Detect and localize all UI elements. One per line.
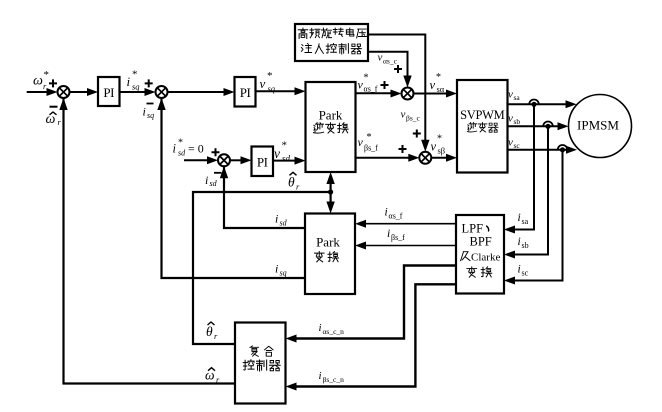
label i_alpha_s_f bbox=[385, 207, 403, 221]
label v_alpha_s_f* bbox=[358, 73, 378, 94]
wire i_alpha_s_f LPF to Park transform bbox=[361, 223, 457, 225]
wire omega_r hat composite controller to S1 bbox=[64, 98, 236, 384]
svg-text:sq: sq bbox=[147, 111, 154, 120]
svg-text:αs_f: αs_f bbox=[389, 212, 403, 221]
svg-text:v: v bbox=[508, 113, 513, 125]
wire S4 to SVPWM bbox=[414, 93, 452, 95]
svg-text:*: * bbox=[436, 72, 441, 83]
svg-text:sd: sd bbox=[210, 179, 218, 188]
label plus sign at S3 bbox=[212, 148, 220, 156]
svg-text:i: i bbox=[275, 212, 278, 226]
wire theta_r hat composite controller to Park blocks bbox=[193, 192, 331, 344]
svg-text:αs_c_n: αs_c_n bbox=[323, 327, 345, 336]
wire S1 to PI1 bbox=[70, 91, 93, 93]
wire i_sq Park transform to S2 bbox=[162, 98, 306, 278]
PI controller PI2 bbox=[235, 77, 256, 107]
label v_sc bbox=[508, 137, 520, 151]
svg-text:sq: sq bbox=[132, 82, 140, 92]
label plus above S4 bbox=[394, 65, 402, 73]
label v_sa bbox=[508, 89, 520, 103]
summing junction S5 bbox=[419, 152, 431, 164]
svg-text:βs_f: βs_f bbox=[391, 233, 405, 242]
wire current i_sa to LPF block bbox=[510, 104, 535, 229]
wire HF controller beta output to S5 bbox=[368, 35, 425, 147]
wire i_sd* input bbox=[184, 159, 213, 161]
wire current i_sb to LPF block bbox=[510, 126, 549, 254]
PI controller PI3 bbox=[252, 147, 274, 177]
svg-text:Park: Park bbox=[316, 235, 340, 250]
svg-text:i: i bbox=[127, 74, 131, 89]
svg-text:ω: ω bbox=[33, 74, 43, 89]
label v_s_beta* bbox=[431, 134, 446, 156]
svg-text:i: i bbox=[319, 370, 322, 382]
block SVPWM inverter bbox=[457, 80, 508, 173]
current sensor phase b bbox=[543, 122, 553, 129]
svg-text:v: v bbox=[260, 76, 266, 91]
svg-text:sd: sd bbox=[282, 154, 291, 164]
label omega_r hat feedback bbox=[46, 112, 62, 127]
svg-text:SVPWM: SVPWM bbox=[460, 108, 505, 122]
svg-text:sβ: sβ bbox=[438, 146, 446, 156]
svg-text:sa: sa bbox=[514, 93, 521, 102]
wire speed reference input bbox=[27, 91, 52, 93]
label i_sq output bbox=[275, 262, 287, 278]
svg-text:*: * bbox=[44, 69, 50, 81]
block LPF BPF and Clarke transform bbox=[456, 215, 504, 294]
label theta_r hat near PI3 bbox=[288, 172, 300, 191]
label i_sd* = 0 bbox=[173, 138, 204, 158]
block HF rotating voltage injection controller bbox=[295, 24, 368, 61]
svg-text:sd: sd bbox=[280, 219, 288, 228]
svg-text:v: v bbox=[378, 52, 383, 64]
label plus above S5 bbox=[413, 130, 421, 138]
svg-text:θ: θ bbox=[206, 324, 213, 339]
svg-text:= 0: = 0 bbox=[188, 142, 204, 156]
svg-text:sb: sb bbox=[522, 241, 529, 250]
label minus sign at S2 bbox=[147, 103, 154, 105]
svg-text:sb: sb bbox=[514, 117, 521, 126]
svg-text:i: i bbox=[275, 262, 278, 276]
current sensor phase a bbox=[529, 100, 539, 107]
wire Park inverse alpha output to S4 bbox=[356, 92, 397, 94]
svg-text:Park: Park bbox=[319, 108, 343, 123]
wire theta link double arrow between Park blocks bbox=[330, 176, 332, 210]
svg-text:*: * bbox=[132, 69, 138, 81]
svg-text:*: * bbox=[364, 73, 369, 84]
summing junction S2 bbox=[156, 86, 168, 98]
block Park inverse transform bbox=[306, 82, 356, 172]
svg-text:sq: sq bbox=[268, 84, 276, 94]
current sensor phase c bbox=[558, 145, 568, 152]
wire i_sd Park transform to S3 bbox=[224, 166, 305, 228]
wire phase b to motor bbox=[508, 125, 564, 127]
label v_sd* bbox=[274, 140, 291, 164]
svg-text:v: v bbox=[431, 140, 437, 154]
svg-text:PI: PI bbox=[240, 85, 251, 100]
svg-text:LPF: LPF bbox=[462, 222, 484, 236]
label i_sq* reference bbox=[127, 69, 141, 92]
block Park transform bbox=[305, 214, 355, 295]
svg-text:*: * bbox=[367, 132, 372, 143]
label v_sq* bbox=[260, 70, 276, 94]
label i_alpha_s_c_n bbox=[319, 322, 345, 336]
svg-text:θ: θ bbox=[288, 175, 295, 190]
svg-text:βs_c_n: βs_c_n bbox=[323, 375, 345, 384]
wire S5 to SVPWM bbox=[431, 157, 451, 159]
label plus sign at S1 bbox=[49, 79, 57, 87]
svg-text:sq: sq bbox=[280, 269, 287, 278]
wire i_beta_s_f LPF to Park transform bbox=[361, 245, 457, 247]
svg-text:Clarke: Clarke bbox=[471, 252, 500, 264]
wire PI3 to Park inverse bbox=[273, 160, 300, 162]
label i_sd output bbox=[275, 212, 288, 228]
svg-text:*: * bbox=[267, 70, 273, 82]
svg-text:i: i bbox=[518, 236, 521, 248]
svg-text:i: i bbox=[173, 142, 177, 156]
wire i_alpha_s_c_n LPF to composite controller bbox=[291, 266, 456, 339]
svg-text:αs_f: αs_f bbox=[364, 85, 378, 94]
label theta_r hat bottom bbox=[206, 322, 218, 341]
wire S3 to PI3 bbox=[230, 159, 246, 161]
label i_sd feedback bbox=[205, 173, 218, 188]
label i_sc bbox=[518, 264, 529, 278]
svg-text:sc: sc bbox=[522, 269, 529, 278]
svg-text:v: v bbox=[508, 137, 513, 149]
summing junction S3 bbox=[218, 154, 230, 166]
svg-text:*: * bbox=[437, 134, 442, 145]
svg-text:r: r bbox=[43, 81, 47, 91]
svg-text:v: v bbox=[358, 135, 364, 149]
summing junction S4 bbox=[402, 88, 414, 100]
wire current i_sc to LPF block bbox=[510, 150, 563, 281]
label i_sa bbox=[518, 212, 529, 226]
node dot theta on vertical link bbox=[328, 189, 333, 194]
label v_s_alpha* bbox=[430, 72, 445, 94]
svg-text:i: i bbox=[518, 212, 521, 224]
wire S2 to PI2 bbox=[168, 91, 230, 93]
svg-text:i: i bbox=[385, 207, 388, 219]
wire HF controller alpha output to S4 bbox=[368, 52, 408, 82]
svg-text:r: r bbox=[296, 182, 300, 192]
wire PI1 to S2 bbox=[120, 91, 151, 93]
svg-text:i: i bbox=[518, 264, 521, 276]
label plus sign at S2 bbox=[145, 79, 153, 87]
svg-text:BPF: BPF bbox=[470, 235, 492, 249]
svg-text:sc: sc bbox=[514, 141, 521, 150]
block composite controller bbox=[235, 323, 286, 404]
label v_alpha_s_c bbox=[378, 52, 398, 66]
label minus sign at S3 bbox=[214, 172, 222, 174]
wire Park inverse beta output to S5 bbox=[356, 157, 414, 159]
svg-text:βs_c: βs_c bbox=[406, 114, 420, 123]
svg-text:PI: PI bbox=[257, 155, 268, 170]
wire phase c to motor bbox=[508, 149, 572, 151]
PI controller PI1 bbox=[98, 77, 120, 106]
svg-text:v: v bbox=[274, 146, 280, 161]
svg-text:sα: sα bbox=[437, 84, 445, 94]
label minus sign at S1 bbox=[50, 106, 58, 108]
svg-text:r: r bbox=[58, 117, 62, 127]
label v_beta_s_f* bbox=[358, 132, 379, 153]
svg-text:IPMSM: IPMSM bbox=[577, 118, 619, 133]
svg-text:v: v bbox=[430, 78, 436, 92]
svg-text:i: i bbox=[387, 228, 390, 240]
svg-text:*: * bbox=[282, 140, 288, 152]
label omega_r hat bottom bbox=[205, 368, 220, 385]
svg-text:βs_f: βs_f bbox=[364, 144, 378, 153]
label v_sb bbox=[508, 113, 520, 127]
label i_beta_s_f bbox=[387, 228, 405, 242]
label i_sb bbox=[518, 236, 529, 250]
svg-text:i: i bbox=[143, 105, 146, 119]
label plus left of S4 bbox=[381, 81, 389, 89]
wire i_beta_s_c_n LPF to composite controller bbox=[291, 284, 456, 386]
svg-text:r: r bbox=[214, 331, 218, 341]
svg-text:*: * bbox=[178, 138, 183, 149]
motor IPMSM bbox=[569, 95, 632, 158]
svg-text:αs_c: αs_c bbox=[383, 57, 398, 66]
wire phase a to motor bbox=[508, 103, 572, 105]
summing junction S1 bbox=[58, 86, 70, 98]
label i_sq feedback bbox=[143, 105, 155, 120]
wire PI2 to Park inverse bbox=[256, 90, 301, 92]
svg-text:i: i bbox=[205, 173, 208, 187]
svg-text:i: i bbox=[319, 322, 322, 334]
label v_beta_s_c bbox=[401, 109, 421, 123]
svg-text:PI: PI bbox=[103, 85, 114, 100]
svg-text:sd: sd bbox=[178, 149, 186, 158]
svg-text:v: v bbox=[508, 89, 513, 101]
label i_beta_s_c_n bbox=[319, 370, 345, 384]
svg-text:v: v bbox=[401, 109, 406, 121]
label plus left of S5 bbox=[399, 145, 407, 153]
svg-text:sa: sa bbox=[522, 217, 529, 226]
